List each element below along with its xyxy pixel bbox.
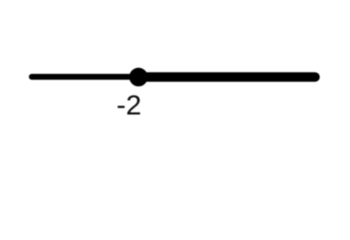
thick ray for x greater/equal -2 (right of dot) [140,72,315,82]
number line thin segment (left of -2) [32,74,138,80]
closed dot at -2 [129,68,148,87]
svg-text:-2: -2 [117,89,142,120]
